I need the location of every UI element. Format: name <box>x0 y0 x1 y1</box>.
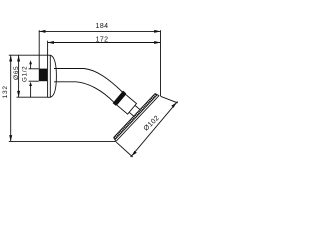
svg-text:132: 132 <box>2 85 9 98</box>
svg-text:184: 184 <box>95 23 108 30</box>
svg-text:172: 172 <box>95 37 108 44</box>
svg-text:G1/2: G1/2 <box>22 66 29 82</box>
svg-text:Ø65: Ø65 <box>13 66 20 80</box>
